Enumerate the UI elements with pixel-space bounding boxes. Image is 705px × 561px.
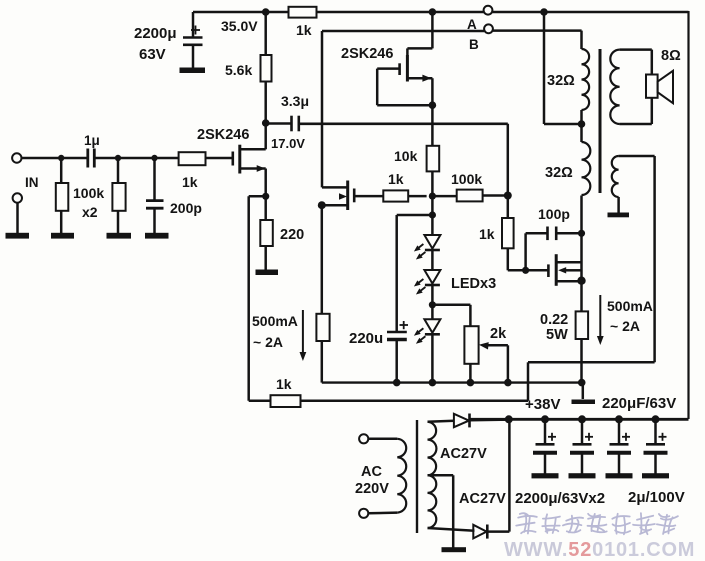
svg-text:17.0V: 17.0V xyxy=(271,136,305,151)
svg-text:~ 2A: ~ 2A xyxy=(610,318,640,334)
svg-text:220: 220 xyxy=(280,227,304,243)
svg-text:~ 2A: ~ 2A xyxy=(253,334,283,350)
svg-text:2μ/100V: 2μ/100V xyxy=(628,489,685,506)
svg-text:AC27V: AC27V xyxy=(459,491,506,507)
svg-text:2SK246: 2SK246 xyxy=(197,127,249,143)
svg-text:2200μ: 2200μ xyxy=(134,25,177,42)
svg-text:32Ω: 32Ω xyxy=(545,165,573,181)
svg-text:1k: 1k xyxy=(276,376,292,392)
svg-text:10k: 10k xyxy=(394,148,418,164)
svg-text:1μ: 1μ xyxy=(84,133,100,148)
svg-text:1k: 1k xyxy=(296,22,312,38)
svg-text:2SK246: 2SK246 xyxy=(341,46,393,62)
svg-text:220u: 220u xyxy=(349,330,383,347)
svg-text:500mA: 500mA xyxy=(607,298,653,314)
svg-text:35.0V: 35.0V xyxy=(221,18,258,34)
svg-text:AC27V: AC27V xyxy=(440,446,487,462)
svg-text:220V: 220V xyxy=(355,481,389,497)
svg-text:1k: 1k xyxy=(182,174,198,190)
svg-text:2k: 2k xyxy=(490,326,507,342)
svg-text:220μF/63V: 220μF/63V xyxy=(602,395,676,412)
svg-text:1k: 1k xyxy=(388,171,404,187)
svg-text:5.6k: 5.6k xyxy=(225,62,252,78)
svg-text:WWW.520101.COM: WWW.520101.COM xyxy=(504,539,695,561)
svg-text:100k: 100k xyxy=(73,185,104,201)
svg-text:IN: IN xyxy=(25,175,39,190)
svg-text:0.22: 0.22 xyxy=(540,312,568,328)
svg-text:200p: 200p xyxy=(170,200,202,216)
svg-text:500mA: 500mA xyxy=(252,313,298,329)
svg-text:+38V: +38V xyxy=(525,396,560,413)
svg-text:AC: AC xyxy=(361,464,382,480)
svg-text:100k: 100k xyxy=(451,171,482,187)
svg-text:3.3μ: 3.3μ xyxy=(281,93,309,109)
svg-text:x2: x2 xyxy=(82,204,98,220)
svg-text:2200μ/63Vx2: 2200μ/63Vx2 xyxy=(515,490,605,507)
svg-text:1k: 1k xyxy=(479,226,495,242)
svg-text:8Ω: 8Ω xyxy=(661,48,681,64)
svg-text:32Ω: 32Ω xyxy=(547,73,575,89)
svg-text:LEDx3: LEDx3 xyxy=(451,276,496,292)
svg-text:B: B xyxy=(469,37,479,52)
svg-text:100p: 100p xyxy=(538,206,570,222)
svg-text:5W: 5W xyxy=(546,327,568,343)
svg-text:63V: 63V xyxy=(139,46,166,63)
